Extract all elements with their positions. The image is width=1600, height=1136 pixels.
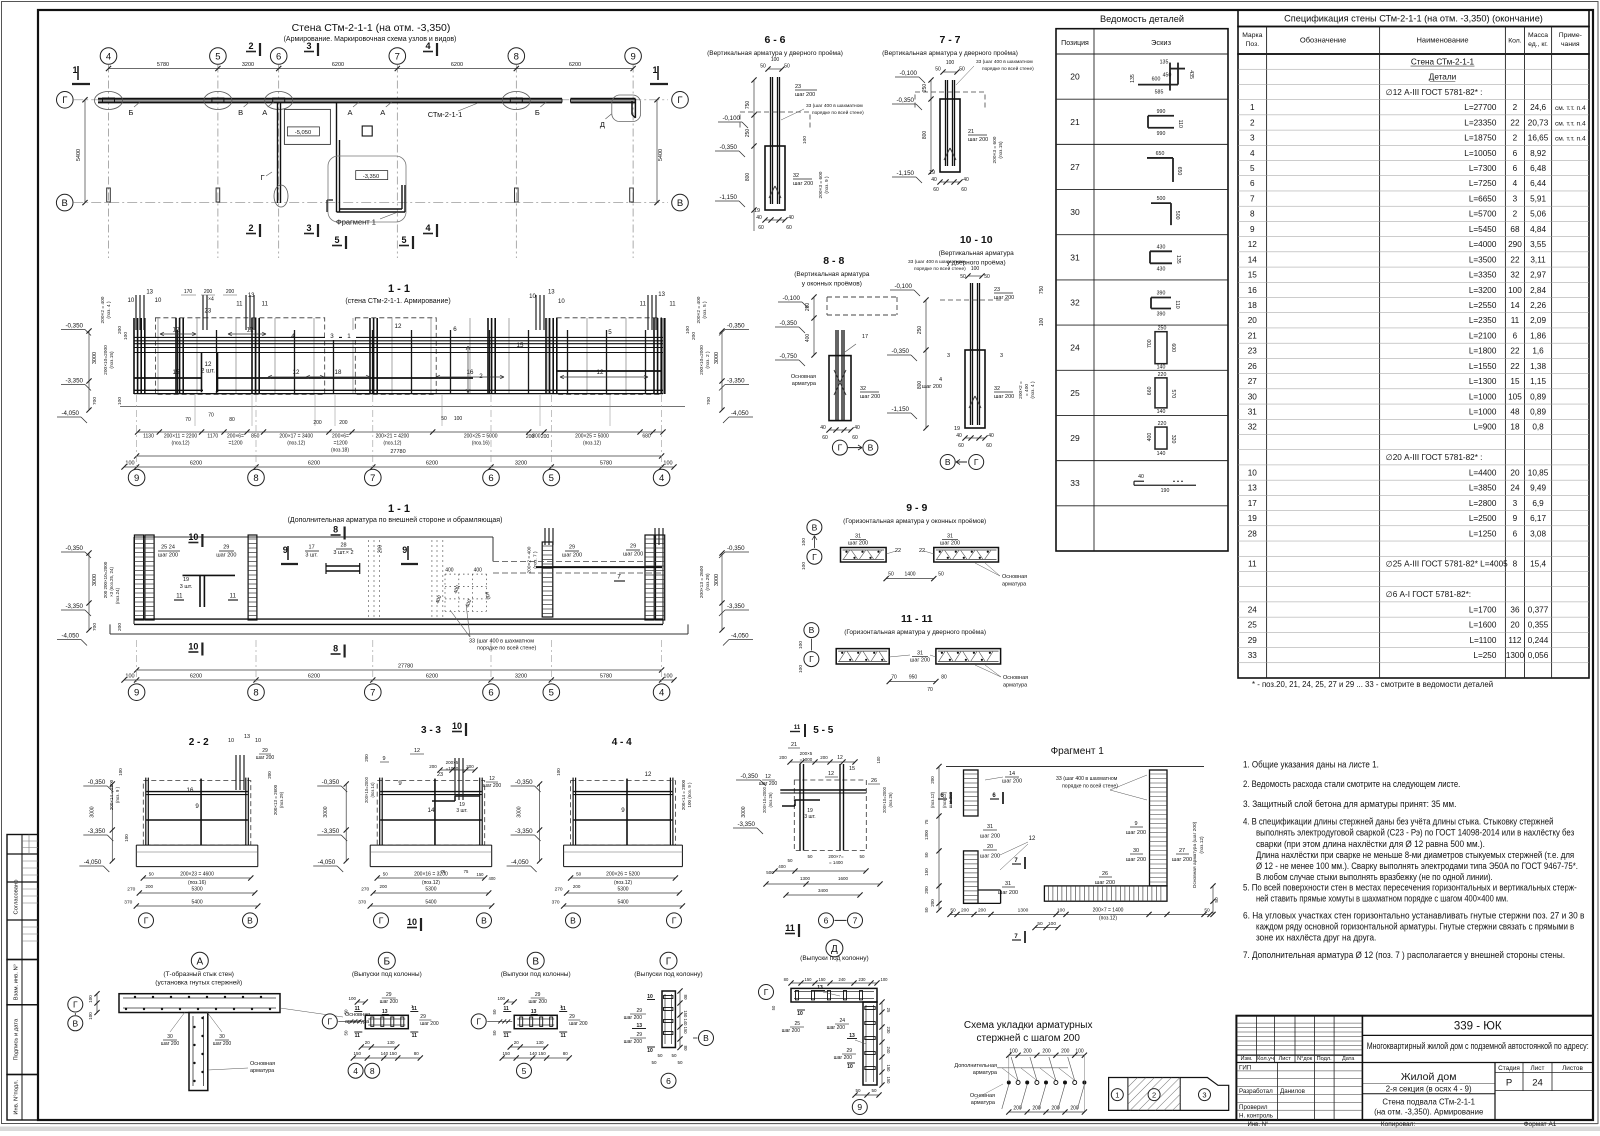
svg-text:10: 10 bbox=[797, 1011, 803, 1017]
svg-text:Жилой дом: Жилой дом bbox=[1401, 1071, 1457, 1083]
svg-text:10: 10 bbox=[188, 532, 198, 542]
svg-text:6,48: 6,48 bbox=[1530, 164, 1546, 173]
svg-text:135: 135 bbox=[1175, 255, 1181, 264]
svg-text:9 - 9: 9 - 9 bbox=[906, 502, 927, 514]
svg-text:100: 100 bbox=[798, 641, 804, 649]
svg-text:27: 27 bbox=[1248, 377, 1258, 386]
svg-text:5: 5 bbox=[549, 688, 554, 699]
svg-text:100: 100 bbox=[1508, 286, 1522, 295]
svg-text:200: 200 bbox=[313, 420, 322, 426]
svg-text:-3,350: -3,350 bbox=[515, 828, 533, 835]
svg-text:6,9: 6,9 bbox=[1532, 499, 1544, 508]
svg-text:-0,100: -0,100 bbox=[722, 115, 740, 122]
svg-text:200: 200 bbox=[1061, 1049, 1070, 1055]
svg-text:200: 200 bbox=[573, 884, 581, 889]
svg-text:×3 (поз.25, 24): ×3 (поз.25, 24) bbox=[109, 566, 114, 597]
svg-text:1,86: 1,86 bbox=[1530, 331, 1546, 340]
svg-text:2,09: 2,09 bbox=[1530, 316, 1546, 325]
svg-text:200×10=2000: 200×10=2000 bbox=[699, 345, 705, 375]
svg-text:6,17: 6,17 bbox=[1530, 514, 1546, 523]
svg-text:60: 60 bbox=[852, 435, 858, 441]
svg-text:7. Дополнительная арматура Ø: 7. Дополнительная арматура Ø 12 (поз. 7 … bbox=[1243, 950, 1565, 960]
svg-text:990: 990 bbox=[1157, 109, 1166, 115]
svg-text:50: 50 bbox=[771, 1005, 776, 1010]
svg-text:4: 4 bbox=[291, 333, 295, 340]
svg-text:200×13 = 2600: 200×13 = 2600 bbox=[699, 566, 705, 599]
svg-text:(поз. 4 ): (поз. 4 ) bbox=[1030, 381, 1036, 399]
svg-text:шаг 200: шаг 200 bbox=[910, 658, 930, 664]
svg-text:В: В bbox=[62, 198, 68, 209]
svg-text:200: 200 bbox=[226, 289, 235, 295]
svg-text:18: 18 bbox=[1248, 301, 1258, 310]
svg-text:(поз.12): (поз.12) bbox=[930, 791, 935, 808]
svg-text:L=23350: L=23350 bbox=[1464, 118, 1497, 127]
svg-text:= 400: = 400 bbox=[1024, 384, 1030, 396]
svg-text:3000: 3000 bbox=[714, 574, 720, 586]
svg-text:23: 23 bbox=[994, 287, 1000, 293]
svg-text:2: 2 bbox=[248, 41, 253, 51]
svg-text:400: 400 bbox=[474, 568, 483, 574]
svg-text:6200: 6200 bbox=[569, 62, 581, 68]
svg-text:В: В bbox=[677, 198, 683, 209]
svg-text:∅6 А-I ГОСТ 5781-82*:: ∅6 А-I ГОСТ 5781-82*: bbox=[1386, 590, 1471, 599]
svg-text:каждом ряду основной горизонта: каждом ряду основной горизонтальной арма… bbox=[1256, 921, 1574, 931]
svg-text:700: 700 bbox=[1147, 339, 1153, 348]
svg-text:60: 60 bbox=[822, 435, 828, 441]
svg-text:15: 15 bbox=[517, 342, 524, 349]
svg-text:3000: 3000 bbox=[89, 806, 95, 817]
svg-text:ней ставить прямые хомуты в ша: ней ставить прямые хомуты в шахматном по… bbox=[1256, 894, 1508, 904]
svg-text:-1,150: -1,150 bbox=[891, 406, 909, 413]
svg-text:30: 30 bbox=[1070, 207, 1080, 217]
svg-text:3: 3 bbox=[330, 333, 334, 340]
svg-text:Обозначение: Обозначение bbox=[1300, 36, 1346, 45]
svg-text:11: 11 bbox=[1248, 560, 1257, 569]
svg-text:(поз.12): (поз.12) bbox=[1199, 836, 1205, 854]
svg-text:750: 750 bbox=[1039, 286, 1045, 295]
svg-text:Эскиз: Эскиз bbox=[1151, 38, 1172, 47]
svg-text:220: 220 bbox=[1158, 372, 1167, 378]
svg-text:Лист: Лист bbox=[1279, 1056, 1292, 1062]
svg-text:200×14 = 2800: 200×14 = 2800 bbox=[109, 779, 114, 810]
svg-text:шаг 200: шаг 200 bbox=[483, 783, 502, 789]
svg-text:13: 13 bbox=[248, 293, 255, 299]
svg-text:L=18750: L=18750 bbox=[1464, 134, 1497, 143]
svg-text:50: 50 bbox=[441, 416, 447, 422]
svg-text:5 - 5: 5 - 5 bbox=[813, 725, 833, 736]
svg-text:29: 29 bbox=[262, 748, 268, 754]
svg-text:Д: Д bbox=[831, 944, 838, 955]
svg-text:7: 7 bbox=[370, 473, 375, 484]
svg-text:650: 650 bbox=[1176, 167, 1182, 176]
svg-text:220: 220 bbox=[1158, 421, 1167, 427]
svg-text:-3,350: -3,350 bbox=[363, 174, 379, 180]
svg-text:200: 200 bbox=[379, 884, 387, 889]
svg-text:(Вертикальная арматура у дверн: (Вертикальная арматура у дверного проёма… bbox=[882, 50, 1018, 57]
svg-text:Стена СТм-2-1-1 (на отм. -3,3: Стена СТм-2-1-1 (на отм. -3,350) bbox=[292, 22, 451, 34]
svg-text:1,15: 1,15 bbox=[1530, 377, 1546, 386]
svg-text:140 150: 140 150 bbox=[530, 1051, 547, 1056]
svg-text:(поз.16): (поз.16) bbox=[472, 441, 490, 447]
svg-text:L=27700: L=27700 bbox=[1464, 103, 1497, 112]
svg-text:12: 12 bbox=[395, 323, 402, 330]
svg-text:L=7300: L=7300 bbox=[1469, 164, 1497, 173]
svg-text:(Вертикальная арматура у дверн: (Вертикальная арматура у дверного проёма… bbox=[707, 50, 843, 57]
svg-text:7: 7 bbox=[617, 573, 621, 580]
svg-text:6200: 6200 bbox=[451, 62, 463, 68]
svg-text:6200: 6200 bbox=[426, 674, 438, 680]
svg-text:Основная: Основная bbox=[791, 374, 816, 380]
svg-text:см. т.т. п.4: см. т.т. п.4 bbox=[1555, 136, 1586, 143]
svg-text:40: 40 bbox=[956, 433, 962, 439]
svg-text:200×2 = 400: 200×2 = 400 bbox=[696, 296, 702, 323]
svg-text:3000: 3000 bbox=[92, 574, 98, 586]
svg-text:3 - 3: 3 - 3 bbox=[421, 725, 441, 736]
svg-text:800: 800 bbox=[917, 381, 923, 390]
svg-text:В: В bbox=[481, 915, 487, 925]
svg-text:27: 27 bbox=[1179, 848, 1185, 854]
svg-text:шаг 200: шаг 200 bbox=[624, 1039, 643, 1045]
svg-text:6: 6 bbox=[1513, 529, 1518, 538]
svg-text:0,244: 0,244 bbox=[1528, 636, 1549, 645]
svg-text:Кол.уч: Кол.уч bbox=[1257, 1056, 1274, 1062]
svg-text:-3,350: -3,350 bbox=[727, 603, 745, 610]
svg-text:200: 200 bbox=[930, 776, 935, 784]
svg-text:130: 130 bbox=[536, 1040, 544, 1045]
svg-text:11: 11 bbox=[262, 301, 269, 307]
svg-text:8 - 8: 8 - 8 bbox=[823, 255, 844, 267]
svg-text:Б: Б bbox=[129, 108, 134, 117]
svg-text:5300: 5300 bbox=[425, 887, 436, 893]
svg-text:(поз.12): (поз.12) bbox=[583, 441, 601, 447]
svg-text:31: 31 bbox=[917, 651, 923, 657]
svg-text:270: 270 bbox=[361, 887, 369, 893]
svg-text:32: 32 bbox=[1070, 298, 1080, 308]
svg-text:Фрагмент 1: Фрагмент 1 bbox=[336, 218, 376, 227]
svg-text:9: 9 bbox=[134, 688, 139, 699]
svg-text:60: 60 bbox=[758, 225, 764, 231]
svg-text:3 шт.: 3 шт. bbox=[305, 552, 318, 558]
svg-text:6: 6 bbox=[453, 326, 457, 333]
svg-text:50: 50 bbox=[576, 872, 582, 877]
svg-text:11: 11 bbox=[412, 1033, 418, 1039]
svg-text:Ведомость деталей: Ведомость деталей bbox=[1100, 14, 1184, 24]
svg-text:стержней с шагом 200: стержней с шагом 200 bbox=[976, 1033, 1080, 1044]
svg-text:200×6=: 200×6= bbox=[227, 434, 244, 440]
svg-text:270: 270 bbox=[555, 887, 563, 893]
svg-text:50: 50 bbox=[1204, 908, 1210, 914]
svg-text:650: 650 bbox=[1156, 151, 1165, 157]
svg-text:50: 50 bbox=[871, 1088, 877, 1093]
svg-text:100: 100 bbox=[663, 461, 672, 467]
svg-text:-0,350: -0,350 bbox=[727, 323, 745, 330]
svg-text:2: 2 bbox=[1250, 118, 1255, 127]
svg-text:200: 200 bbox=[779, 755, 787, 760]
svg-text:100: 100 bbox=[1039, 318, 1045, 327]
svg-text:28: 28 bbox=[340, 542, 346, 548]
svg-text:Фрагмент 1: Фрагмент 1 bbox=[1051, 746, 1105, 757]
svg-text:В: В bbox=[868, 443, 874, 453]
svg-text:шаг 200: шаг 200 bbox=[827, 1025, 846, 1031]
svg-text:270: 270 bbox=[127, 887, 135, 893]
svg-text:2,97: 2,97 bbox=[1530, 271, 1546, 280]
svg-text:шаг 200: шаг 200 bbox=[860, 394, 880, 400]
svg-text:шаг 200: шаг 200 bbox=[793, 181, 813, 187]
svg-text:L=1300: L=1300 bbox=[1469, 377, 1497, 386]
svg-text:33 (шаг 400 в шахматном: 33 (шаг 400 в шахматном bbox=[806, 103, 863, 109]
svg-text:200×14 = 2800: 200×14 = 2800 bbox=[681, 779, 686, 810]
svg-text:18: 18 bbox=[1510, 423, 1520, 432]
svg-text:(поз.26): (поз.26) bbox=[888, 792, 893, 808]
svg-text:4,84: 4,84 bbox=[1530, 225, 1546, 234]
svg-text:∅12 А-III ГОСТ 5781-82* :: ∅12 А-III ГОСТ 5781-82* : bbox=[1386, 88, 1483, 97]
svg-text:8,92: 8,92 bbox=[1530, 149, 1546, 158]
svg-text:100: 100 bbox=[497, 996, 505, 1001]
svg-text:Г: Г bbox=[672, 915, 677, 925]
svg-text:Наименование: Наименование bbox=[1417, 36, 1469, 45]
svg-text:L=250: L=250 bbox=[1473, 651, 1496, 660]
svg-text:(поз.29): (поз.29) bbox=[279, 791, 284, 808]
svg-text:150: 150 bbox=[502, 1051, 510, 1056]
svg-text:390: 390 bbox=[1157, 291, 1166, 297]
svg-text:40: 40 bbox=[820, 425, 826, 431]
svg-text:шаг 200: шаг 200 bbox=[624, 1015, 643, 1021]
svg-text:27: 27 bbox=[1070, 162, 1080, 172]
svg-text:9: 9 bbox=[134, 473, 139, 484]
svg-text:9: 9 bbox=[1250, 225, 1255, 234]
svg-text:5400: 5400 bbox=[76, 149, 82, 161]
svg-text:L=3200: L=3200 bbox=[1469, 286, 1497, 295]
svg-text:L=1100: L=1100 bbox=[1469, 636, 1496, 645]
svg-text:100: 100 bbox=[117, 397, 123, 405]
svg-text:2,84: 2,84 bbox=[1530, 286, 1546, 295]
svg-text:29: 29 bbox=[386, 992, 392, 998]
svg-text:3000: 3000 bbox=[517, 806, 523, 817]
svg-text:100: 100 bbox=[1075, 1049, 1084, 1055]
svg-text:(поз.12): (поз.12) bbox=[287, 441, 305, 447]
svg-text:L=5700: L=5700 bbox=[1469, 210, 1497, 219]
svg-text:240: 240 bbox=[886, 1047, 891, 1055]
svg-text:250: 250 bbox=[917, 326, 923, 335]
svg-text:(поз.14): (поз.14) bbox=[370, 782, 375, 798]
svg-text:700: 700 bbox=[706, 397, 712, 405]
svg-text:см. т.т. п.4: см. т.т. п.4 bbox=[1555, 120, 1586, 127]
svg-text:А: А bbox=[347, 108, 352, 117]
svg-text:(поз.18): (поз.18) bbox=[331, 448, 349, 454]
svg-text:шаг 200: шаг 200 bbox=[980, 834, 1000, 840]
svg-text:Проверил: Проверил bbox=[1239, 1104, 1268, 1111]
svg-text:0,89: 0,89 bbox=[1530, 408, 1546, 417]
svg-text:Копировал:: Копировал: bbox=[1381, 1121, 1416, 1128]
svg-text:20: 20 bbox=[1070, 72, 1080, 82]
svg-text:4: 4 bbox=[659, 688, 664, 699]
svg-text:100: 100 bbox=[876, 756, 881, 764]
svg-text:100: 100 bbox=[88, 995, 93, 1003]
svg-text:5: 5 bbox=[215, 51, 220, 62]
svg-text:3200: 3200 bbox=[515, 674, 527, 680]
svg-text:100: 100 bbox=[946, 60, 955, 66]
svg-text:150: 150 bbox=[886, 1077, 891, 1085]
svg-text:24: 24 bbox=[1248, 605, 1258, 614]
svg-text:шаг 200: шаг 200 bbox=[834, 1055, 853, 1061]
svg-text:шаг 200: шаг 200 bbox=[940, 541, 960, 547]
svg-text:370: 370 bbox=[552, 900, 560, 906]
svg-text:100: 100 bbox=[802, 136, 808, 144]
svg-text:200×3 = 600: 200×3 = 600 bbox=[818, 171, 824, 198]
svg-text:(Дополнительная арматура по вн: (Дополнительная арматура по внешней стор… bbox=[288, 516, 503, 524]
svg-text:70: 70 bbox=[927, 687, 933, 693]
svg-text:6: 6 bbox=[1513, 149, 1518, 158]
svg-text:9: 9 bbox=[630, 51, 635, 62]
svg-text:8: 8 bbox=[1513, 560, 1518, 569]
svg-text:135: 135 bbox=[1130, 74, 1136, 83]
svg-text:4. В спецификации длины стерж: 4. В спецификации длины стержней даны бе… bbox=[1243, 817, 1553, 827]
svg-text:100: 100 bbox=[454, 416, 463, 422]
svg-text:2 - 2: 2 - 2 bbox=[189, 737, 209, 748]
svg-text:-0,350: -0,350 bbox=[65, 323, 83, 330]
svg-text:15,4: 15,4 bbox=[1530, 560, 1546, 569]
svg-text:11: 11 bbox=[561, 1033, 567, 1039]
svg-text:430: 430 bbox=[1157, 244, 1166, 250]
svg-text:250: 250 bbox=[922, 84, 928, 93]
svg-text:Лист: Лист bbox=[1531, 1065, 1545, 1072]
svg-text:140 150: 140 150 bbox=[381, 1051, 398, 1056]
svg-text:Длина нахлёстки при сварке не: Длина нахлёстки при сварке не меньше 8-м… bbox=[1256, 850, 1574, 860]
svg-text:25: 25 bbox=[1070, 388, 1080, 398]
svg-text:шаг 200: шаг 200 bbox=[1172, 857, 1192, 863]
svg-text:200×5: 200×5 bbox=[800, 751, 813, 756]
svg-text:50: 50 bbox=[859, 854, 865, 859]
svg-text:-0,350: -0,350 bbox=[740, 773, 758, 780]
svg-text:L=4000: L=4000 bbox=[1469, 240, 1497, 249]
svg-text:6: 6 bbox=[666, 1076, 671, 1086]
svg-text:3,55: 3,55 bbox=[1530, 240, 1546, 249]
svg-text:12: 12 bbox=[597, 369, 604, 376]
svg-text:9: 9 bbox=[283, 545, 288, 555]
svg-text:50: 50 bbox=[787, 858, 793, 863]
svg-text:L=3850: L=3850 bbox=[1469, 484, 1497, 493]
svg-text:Подпись и дата: Подпись и дата bbox=[14, 1018, 20, 1060]
svg-text:68: 68 bbox=[1510, 225, 1520, 234]
svg-text:15: 15 bbox=[849, 766, 855, 772]
svg-text:арматура: арматура bbox=[971, 1100, 996, 1106]
svg-text:шаг 200: шаг 200 bbox=[994, 394, 1014, 400]
svg-text:шаг 200: шаг 200 bbox=[968, 137, 988, 143]
svg-text:-0,350: -0,350 bbox=[88, 779, 106, 786]
svg-text:13: 13 bbox=[658, 292, 665, 298]
svg-text:7: 7 bbox=[370, 688, 375, 699]
svg-text:шаг 200: шаг 200 bbox=[380, 999, 399, 1005]
svg-text:Дополнительная: Дополнительная bbox=[954, 1063, 997, 1069]
svg-text:6: 6 bbox=[1513, 331, 1518, 340]
svg-text:6: 6 bbox=[488, 688, 493, 699]
svg-text:А: А bbox=[380, 108, 385, 117]
svg-text:20,73: 20,73 bbox=[1528, 118, 1549, 127]
svg-text:1300: 1300 bbox=[924, 829, 929, 840]
svg-text:50: 50 bbox=[671, 1053, 677, 1058]
svg-text:11 - 11: 11 - 11 bbox=[901, 613, 933, 625]
svg-text:100: 100 bbox=[556, 768, 561, 776]
svg-text:шаг 200: шаг 200 bbox=[1126, 830, 1146, 836]
svg-text:-4,050: -4,050 bbox=[731, 410, 749, 417]
svg-text:130: 130 bbox=[387, 1040, 395, 1045]
svg-text:2: 2 bbox=[248, 223, 253, 233]
svg-text:21: 21 bbox=[1248, 331, 1258, 340]
svg-text:3000: 3000 bbox=[714, 352, 720, 364]
svg-text:800: 800 bbox=[922, 131, 928, 140]
svg-text:150 140 150: 150 140 150 bbox=[683, 1010, 688, 1034]
svg-text:200×10=2000: 200×10=2000 bbox=[762, 786, 767, 813]
svg-text:100: 100 bbox=[1009, 1049, 1018, 1055]
svg-text:5400: 5400 bbox=[658, 149, 664, 161]
svg-text:Инв. N°подл.: Инв. N°подл. bbox=[14, 1079, 20, 1114]
svg-text:5780: 5780 bbox=[157, 62, 169, 68]
svg-text:12: 12 bbox=[828, 771, 834, 777]
svg-text:31: 31 bbox=[1005, 881, 1011, 887]
svg-text:-3,350: -3,350 bbox=[322, 828, 340, 835]
svg-text:12: 12 bbox=[247, 327, 254, 334]
svg-text:60: 60 bbox=[958, 443, 964, 449]
svg-text:12: 12 bbox=[837, 755, 843, 761]
svg-text:2: 2 bbox=[1513, 210, 1518, 219]
svg-text:20: 20 bbox=[1510, 468, 1520, 477]
svg-text:7: 7 bbox=[395, 51, 400, 62]
svg-text:8: 8 bbox=[333, 525, 338, 535]
svg-text:60: 60 bbox=[986, 443, 992, 449]
svg-text:L=1550: L=1550 bbox=[1469, 362, 1497, 371]
svg-text:-0,350: -0,350 bbox=[891, 348, 909, 355]
svg-text:50: 50 bbox=[760, 64, 766, 70]
svg-text:110: 110 bbox=[1174, 300, 1180, 308]
svg-text:230: 230 bbox=[886, 1027, 891, 1035]
svg-text:зоне их нахлёста друг на друга: зоне их нахлёста друг на друга. bbox=[1256, 933, 1376, 943]
svg-text:15: 15 bbox=[173, 369, 180, 376]
svg-text:* - поз.20, 21, 24, 25, 27 и 2: * - поз.20, 21, 24, 25, 27 и 29 ... 33 -… bbox=[1252, 680, 1493, 689]
svg-text:200: 200 bbox=[466, 764, 474, 769]
svg-text:шаг 200: шаг 200 bbox=[782, 1028, 801, 1034]
svg-text:100: 100 bbox=[798, 665, 804, 673]
svg-text:-0,350: -0,350 bbox=[727, 545, 745, 552]
svg-text:27780: 27780 bbox=[398, 663, 413, 669]
svg-text:5780: 5780 bbox=[600, 674, 612, 680]
svg-text:(стена СТм-2-1-1. Армирование: (стена СТм-2-1-1. Армирование) bbox=[345, 298, 450, 305]
svg-text:3000: 3000 bbox=[92, 352, 98, 364]
svg-text:22: 22 bbox=[1510, 255, 1520, 264]
svg-text:Ø 12 - не менее 100 мм.). Сва: Ø 12 - не менее 100 мм.). Сварку выполня… bbox=[1256, 861, 1578, 871]
svg-text:-4,050: -4,050 bbox=[84, 859, 102, 866]
svg-text:24,6: 24,6 bbox=[1530, 103, 1546, 112]
svg-text:шаг 200: шаг 200 bbox=[213, 1041, 232, 1047]
svg-text:В: В bbox=[570, 915, 576, 925]
svg-text:6200: 6200 bbox=[332, 62, 344, 68]
svg-text:40: 40 bbox=[1138, 474, 1144, 480]
svg-text:-3,350: -3,350 bbox=[88, 828, 106, 835]
svg-text:200: 200 bbox=[820, 755, 828, 760]
svg-text:150: 150 bbox=[354, 1051, 362, 1056]
svg-text:250: 250 bbox=[1158, 326, 1167, 332]
svg-text:33 (шаг 400 в шахматном: 33 (шаг 400 в шахматном bbox=[976, 59, 1033, 65]
svg-text:шаг 200: шаг 200 bbox=[994, 295, 1014, 301]
svg-text:5. По всей поверхности стен в: 5. По всей поверхности стен в местах пер… bbox=[1243, 883, 1577, 893]
svg-text:L=2100: L=2100 bbox=[1469, 331, 1497, 340]
svg-text:24: 24 bbox=[1510, 484, 1520, 493]
svg-text:14: 14 bbox=[1248, 255, 1258, 264]
svg-text:сварки (при этом длина нахлёст: сварки (при этом длина нахлёстки для Ø 1… bbox=[1256, 839, 1485, 849]
svg-text:50: 50 bbox=[651, 1060, 657, 1065]
svg-text:-3,350: -3,350 bbox=[737, 821, 755, 828]
svg-text:24: 24 bbox=[1532, 1078, 1543, 1089]
svg-text:Г: Г bbox=[476, 1016, 481, 1026]
